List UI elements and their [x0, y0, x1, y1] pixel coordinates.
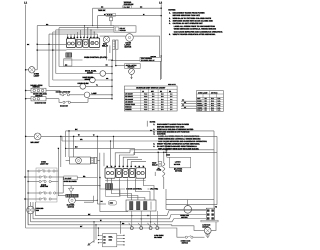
- door switch bottom: [185, 236, 187, 238]
- svg-text:SURFACE UNIT SWITCH CHART: SURFACE UNIT SWITCH CHART: [136, 87, 166, 90]
- riser busC to connector box: [120, 222, 122, 234]
- wire latch motor right then down: [133, 36, 159, 57]
- wire L1 vertical bus: [25, 5, 27, 228]
- wire coil riser to rail: [163, 152, 165, 161]
- ground triangle chassis: [69, 188, 74, 192]
- wires down from right extension: [106, 43, 108, 61]
- wire L1 to group1: [26, 90, 31, 92]
- wire lower rail C: [66, 147, 135, 149]
- nest corner verticals to element rows: [48, 34, 50, 86]
- cluster verticals: [57, 148, 59, 196]
- wire mid cluster left: [66, 160, 70, 162]
- wire fan inline right riser: [211, 222, 216, 231]
- wire L1 to oven light: [26, 69, 29, 71]
- right box bottom edge: [166, 204, 217, 206]
- svg-text:LIGHT SW: LIGHT SW: [40, 163, 49, 166]
- svg-text:BK: BK: [184, 107, 186, 109]
- wire bottom left risers: [97, 228, 99, 236]
- infinite switch S3: [83, 39, 89, 47]
- table oven lamp chart: [197, 91, 224, 112]
- lower bank internal hatches: [116, 169, 118, 171]
- cooling fan motor M3: [27, 206, 35, 214]
- label rounded lower: [109, 201, 117, 205]
- auto latch text box: [125, 64, 141, 69]
- lower bank terminal dots: [106, 166, 108, 168]
- hi-limit box: [64, 176, 77, 180]
- oven control box outline: [64, 59, 83, 61]
- convection fan circle right: [184, 206, 192, 214]
- bottom bus wire E contacts line: [26, 227, 160, 229]
- wire strip left: [58, 195, 65, 197]
- svg-text:MOTOR: MOTOR: [125, 45, 132, 48]
- oven light lamp DS1: [29, 67, 35, 73]
- bank internal wires: [66, 49, 99, 51]
- wire switch to fan: [193, 236, 205, 238]
- terminal dots oven control bank: [67, 37, 69, 39]
- connector label P-1 on top rail: [123, 6, 132, 9]
- wire cluster to J2 line: [63, 185, 100, 187]
- nest corner wires top-left: [37, 25, 114, 27]
- svg-text:MONITOR SW: MONITOR SW: [35, 101, 47, 104]
- door control switch D4: [129, 169, 135, 178]
- door control switch D3: [123, 169, 129, 178]
- verticals rails to bank: [110, 141, 112, 166]
- wire hi-limit right RD: [77, 177, 97, 179]
- svg-text:CONV. ELEM: CONV. ELEM: [78, 82, 90, 85]
- svg-text:VERIFY PROPER OPERATION AFTER: VERIFY PROPER OPERATION AFTER SERVICING.: [173, 33, 216, 36]
- wire conv fan left: [166, 208, 184, 210]
- switch contacts row5: [62, 94, 64, 96]
- svg-text:WIRE GA.16 TO FIXTURES COLORED: WIRE GA.16 TO FIXTURES COLORED WHITE: [173, 17, 212, 20]
- switch row A: [28, 170, 38, 172]
- lower rail verticals: [65, 131, 67, 157]
- svg-text:OVEN BLOWER: OVEN BLOWER: [64, 180, 78, 183]
- switch row B: [25, 176, 39, 178]
- oven selector switch S4: [89, 38, 99, 48]
- lower bank internal line: [105, 180, 146, 182]
- bottom bus wire B: [33, 202, 206, 219]
- latch motor low box: [170, 157, 191, 168]
- svg-text:CAUTION: DO NOT OPERATE UNIT: CAUTION: DO NOT OPERATE UNIT: [173, 22, 204, 25]
- svg-text:BK: BK: [184, 102, 186, 104]
- latch motor assembly lower mid: [70, 157, 91, 164]
- footnote brace: [146, 121, 148, 127]
- wire L1 to group2: [26, 98, 31, 100]
- blower motor M4: [69, 197, 76, 204]
- wire latch motor to bank: [100, 35, 126, 37]
- wires bundle from right rails: [130, 150, 166, 153]
- svg-text:RELAY: RELAY: [152, 164, 158, 167]
- svg-text:WHEN SERVICING CONTROLS. WIRIN: WHEN SERVICING CONTROLS. WIRING ERRORS: [174, 28, 217, 31]
- convect element E3: [80, 84, 86, 90]
- door control bundle wires: [115, 153, 130, 167]
- svg-text:MR LIGHT: MR LIGHT: [31, 141, 41, 144]
- connector bars pair top: [113, 40, 115, 49]
- MR light lamp DS2: [34, 133, 41, 140]
- corner wire left of J2: [84, 196, 93, 203]
- svg-text:LOCK SW: LOCK SW: [40, 185, 48, 188]
- wire group1 row right: [46, 90, 60, 92]
- infinite switch S1: [66, 39, 75, 48]
- connector P3 body: [206, 208, 214, 220]
- lower terminals contact circles: [130, 227, 133, 230]
- svg-text:CAN CAUSE IMPROPER AND DANGERO: CAN CAUSE IMPROPER AND DANGEROUS OPERATI…: [174, 30, 223, 33]
- bottom bus wire D: [28, 199, 196, 230]
- wire L1 corner to MR light: [26, 135, 35, 137]
- svg-text:3400W: 3400W: [87, 71, 93, 74]
- door latch motor M2: [126, 34, 134, 42]
- ground connector box bottom: [102, 234, 116, 247]
- wire rail drops to bundle: [92, 8, 94, 25]
- svg-text:LABEL ALL WIRES PRIOR TO DISCO: LABEL ALL WIRES PRIOR TO DISCONNECTION: [174, 25, 216, 28]
- lamp E5: [84, 92, 90, 98]
- wire auto latch to bus: [116, 65, 125, 67]
- svg-text:BOARD: BOARD: [120, 29, 127, 32]
- switch row E: [25, 198, 39, 200]
- svg-text:P3: P3: [215, 206, 217, 209]
- drop verticals into lower cluster: [68, 131, 70, 157]
- wire element row 1: [59, 66, 112, 68]
- wire light to drop: [35, 69, 37, 71]
- wire conv fan right: [191, 208, 206, 210]
- wire blower cluster vertical: [70, 192, 72, 194]
- svg-text:MOTOR): MOTOR): [175, 170, 182, 173]
- door control switch D1: [105, 168, 115, 178]
- wire lower rail D: [62, 140, 166, 142]
- connector right pins: [117, 234, 124, 236]
- wire right of cluster: [96, 136, 98, 204]
- wire group2 row right: [46, 98, 59, 100]
- svg-text:TMR BK: TMR BK: [98, 9, 106, 12]
- connector P3 label strip: [201, 220, 218, 222]
- nest horizontal feeders: [37, 43, 66, 45]
- wire bank left feeds: [67, 34, 69, 37]
- wire top rail 1: [93, 7, 162, 9]
- vertical element coil: [163, 162, 165, 163]
- table surface unit chart: [124, 86, 177, 111]
- small box under J1: [64, 59, 72, 66]
- heat relay small box: [158, 162, 162, 166]
- wire drop from top nest: [36, 26, 38, 70]
- switch row C: [28, 181, 39, 183]
- wire bake element row: [53, 79, 90, 81]
- cluster box outline: [36, 168, 57, 202]
- right edge verticals: [213, 131, 215, 208]
- wire fan vertical: [30, 202, 32, 206]
- wires into lamp table: [181, 100, 197, 102]
- svg-text:NOTES:: NOTES:: [168, 8, 176, 11]
- wires down from lower extension: [154, 172, 156, 176]
- dark connector block J1: [66, 53, 72, 57]
- connector label P-2 on rail 2: [106, 13, 116, 16]
- wire relay box right down: [159, 61, 161, 80]
- connector box P-3 top: [114, 26, 136, 32]
- dark connector block J2 lower: [106, 184, 113, 190]
- wire latch box riser: [166, 150, 168, 158]
- relay board box P/N: [140, 57, 162, 61]
- bake element E2: [90, 77, 96, 83]
- box below J2: [106, 190, 120, 197]
- ground symbol bottom right: [207, 234, 209, 235]
- wire bus to relay box: [112, 59, 140, 61]
- bottom bus wire C: [31, 219, 207, 222]
- svg-text:BK: BK: [182, 105, 184, 107]
- contact blades: [129, 223, 132, 227]
- wire lower rail A: [66, 130, 214, 132]
- door control switch D5: [136, 168, 146, 178]
- svg-text:SWITCHES SHOWN WITH DOOR CLOSE: SWITCHES SHOWN WITH DOOR CLOSED AND: [173, 20, 214, 23]
- svg-text:DISCONNECT RANGE FROM POWER: DISCONNECT RANGE FROM POWER: [173, 11, 206, 14]
- svg-text:BEFORE SERVICING THIS UNIT.: BEFORE SERVICING THIS UNIT.: [173, 14, 201, 17]
- terminal strip dark: [66, 194, 79, 197]
- wire bundle drops into switch bank: [84, 26, 86, 38]
- connector bars pair mid: [91, 157, 94, 163]
- bottom bus wire A: [36, 202, 207, 216]
- wire fan inline left: [197, 229, 205, 231]
- svg-text:HI-LIMIT: HI-LIMIT: [65, 177, 73, 180]
- wire top rail 2: [98, 15, 162, 17]
- wire mid cluster right: [97, 160, 100, 162]
- neutral arrow bottom left: [88, 241, 95, 246]
- wires bank bottom to relay block: [106, 178, 108, 182]
- relay block assembly lower: [126, 200, 156, 211]
- wires from relay block to contacts: [131, 211, 133, 227]
- door control box outline: [99, 153, 101, 189]
- svg-text:DOOR LATCH SW: DOOR LATCH SW: [56, 90, 71, 93]
- wire L2 vertical bus: [160, 4, 162, 79]
- svg-text:DOOR CONTROL: DOOR CONTROL: [126, 187, 142, 190]
- wire broil element row: [63, 65, 65, 67]
- DLB motor M1: [103, 36, 109, 42]
- svg-text:MOTOR: MOTOR: [68, 205, 75, 208]
- wire chain bottom right: [159, 228, 185, 237]
- svg-text:BK: BK: [182, 100, 184, 102]
- connector left pins: [98, 235, 102, 237]
- svg-text:2500W: 2500W: [85, 78, 91, 81]
- infinite switch S2: [76, 39, 82, 47]
- wire lower rail B from light: [41, 135, 217, 137]
- door control switch D2: [116, 169, 122, 178]
- connector P3 pads: [207, 210, 209, 212]
- wire conv element row: [49, 85, 80, 87]
- svg-text:OVEN CONTROL (FLUTE): OVEN CONTROL (FLUTE): [84, 56, 107, 59]
- wire conv fan up: [186, 200, 188, 206]
- switch row D: [28, 192, 39, 194]
- svg-text:SWITCH: SWITCH: [35, 94, 43, 97]
- svg-text:RELAY: RELAY: [102, 45, 109, 48]
- svg-text:P-2 W: P-2 W: [107, 14, 112, 17]
- wire motor right to riser: [75, 199, 97, 201]
- bus vertical mid: [111, 60, 113, 98]
- svg-text:BLOWER RELAY: BLOWER RELAY: [141, 59, 155, 62]
- svg-text:MOTOR: MOTOR: [174, 163, 181, 166]
- svg-text:LIGHT: LIGHT: [34, 75, 40, 78]
- broil element E1: [100, 71, 106, 77]
- fuse F1 drop from rail2: [110, 16, 112, 18]
- svg-text:BLOWER: BLOWER: [154, 236, 162, 239]
